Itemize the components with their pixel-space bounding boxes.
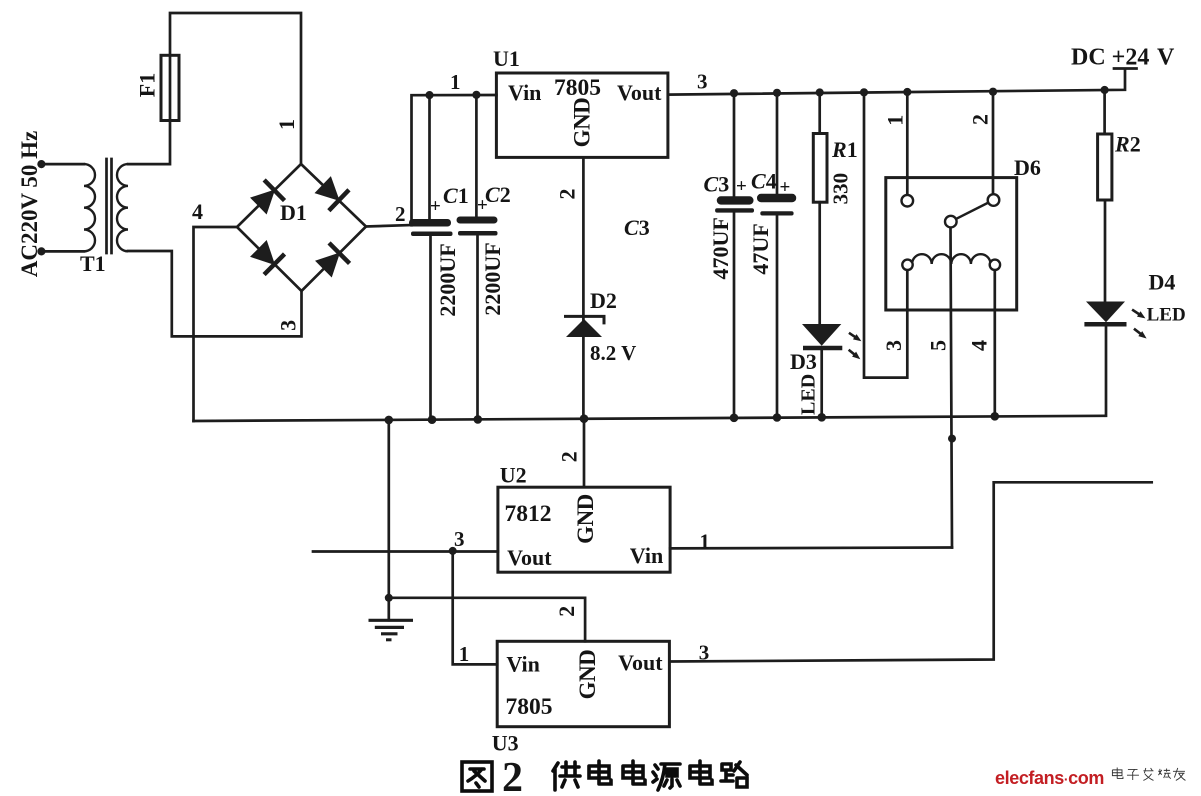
svg-text:C4: C4 [751,168,777,193]
svg-text:GND: GND [573,494,598,544]
svg-text:D3: D3 [790,349,817,374]
svg-text:C3: C3 [704,171,730,196]
svg-text:2: 2 [557,451,582,462]
svg-text:470UF: 470UF [708,217,733,279]
svg-text:C1: C1 [443,183,469,208]
svg-text:D4: D4 [1149,270,1176,295]
svg-text:T1: T1 [80,251,106,276]
svg-text:V: V [1157,45,1175,71]
svg-text:R1: R1 [831,137,858,162]
svg-text:U2: U2 [500,462,527,487]
svg-text:LED: LED [1147,304,1186,325]
svg-text:Vout: Vout [617,80,662,105]
svg-text:Vout: Vout [507,545,552,570]
svg-text:3: 3 [881,340,906,351]
svg-text:7805: 7805 [506,694,553,720]
svg-text:+: + [430,196,441,217]
svg-text:U1: U1 [493,46,520,71]
svg-text:2: 2 [555,189,580,200]
svg-text:R2: R2 [1114,131,1141,156]
svg-text:2: 2 [395,202,406,226]
svg-text:+: + [736,176,747,197]
svg-text:Vin: Vin [508,80,541,105]
svg-text:D1: D1 [280,200,307,225]
svg-text:Vin: Vin [506,652,539,677]
svg-text:2200UF: 2200UF [435,243,460,316]
svg-text:4: 4 [967,340,992,351]
svg-text:3: 3 [697,70,708,94]
svg-text:C2: C2 [485,182,511,207]
svg-text:elecfans·com: elecfans·com [995,768,1104,788]
svg-text:1: 1 [274,119,299,130]
svg-text:+: + [780,177,791,198]
svg-text:2: 2 [502,755,523,796]
svg-text:3: 3 [454,527,465,551]
svg-text:+: + [477,195,488,216]
svg-text:2200UF: 2200UF [480,242,505,315]
svg-text:330: 330 [829,173,853,205]
svg-text:1: 1 [699,529,710,553]
svg-text:47UF: 47UF [748,223,773,274]
svg-text:5: 5 [925,340,950,351]
svg-text:D6: D6 [1014,155,1041,180]
svg-text:AC220V 50 Hz: AC220V 50 Hz [17,131,42,278]
svg-text:2: 2 [554,606,579,617]
svg-text:GND: GND [575,650,600,700]
svg-text:C3: C3 [624,215,650,240]
svg-text:Vout: Vout [618,650,663,675]
svg-text:8.2 V: 8.2 V [590,341,636,365]
svg-text:GND: GND [570,98,595,148]
svg-text:4: 4 [192,199,203,224]
svg-text:3: 3 [699,641,710,665]
svg-text:Vin: Vin [630,543,663,568]
svg-text:1: 1 [459,642,470,666]
svg-text:7812: 7812 [505,501,552,527]
svg-text:D2: D2 [590,288,617,313]
svg-text:F1: F1 [135,73,160,97]
svg-text:2: 2 [968,114,993,125]
svg-text:1: 1 [883,115,908,126]
svg-text:3: 3 [275,320,300,331]
svg-text:1: 1 [450,70,461,94]
svg-text:7805: 7805 [554,75,601,101]
svg-text:LED: LED [798,374,820,415]
svg-text:U3: U3 [492,731,519,756]
svg-text:DC +24: DC +24 [1071,45,1149,71]
